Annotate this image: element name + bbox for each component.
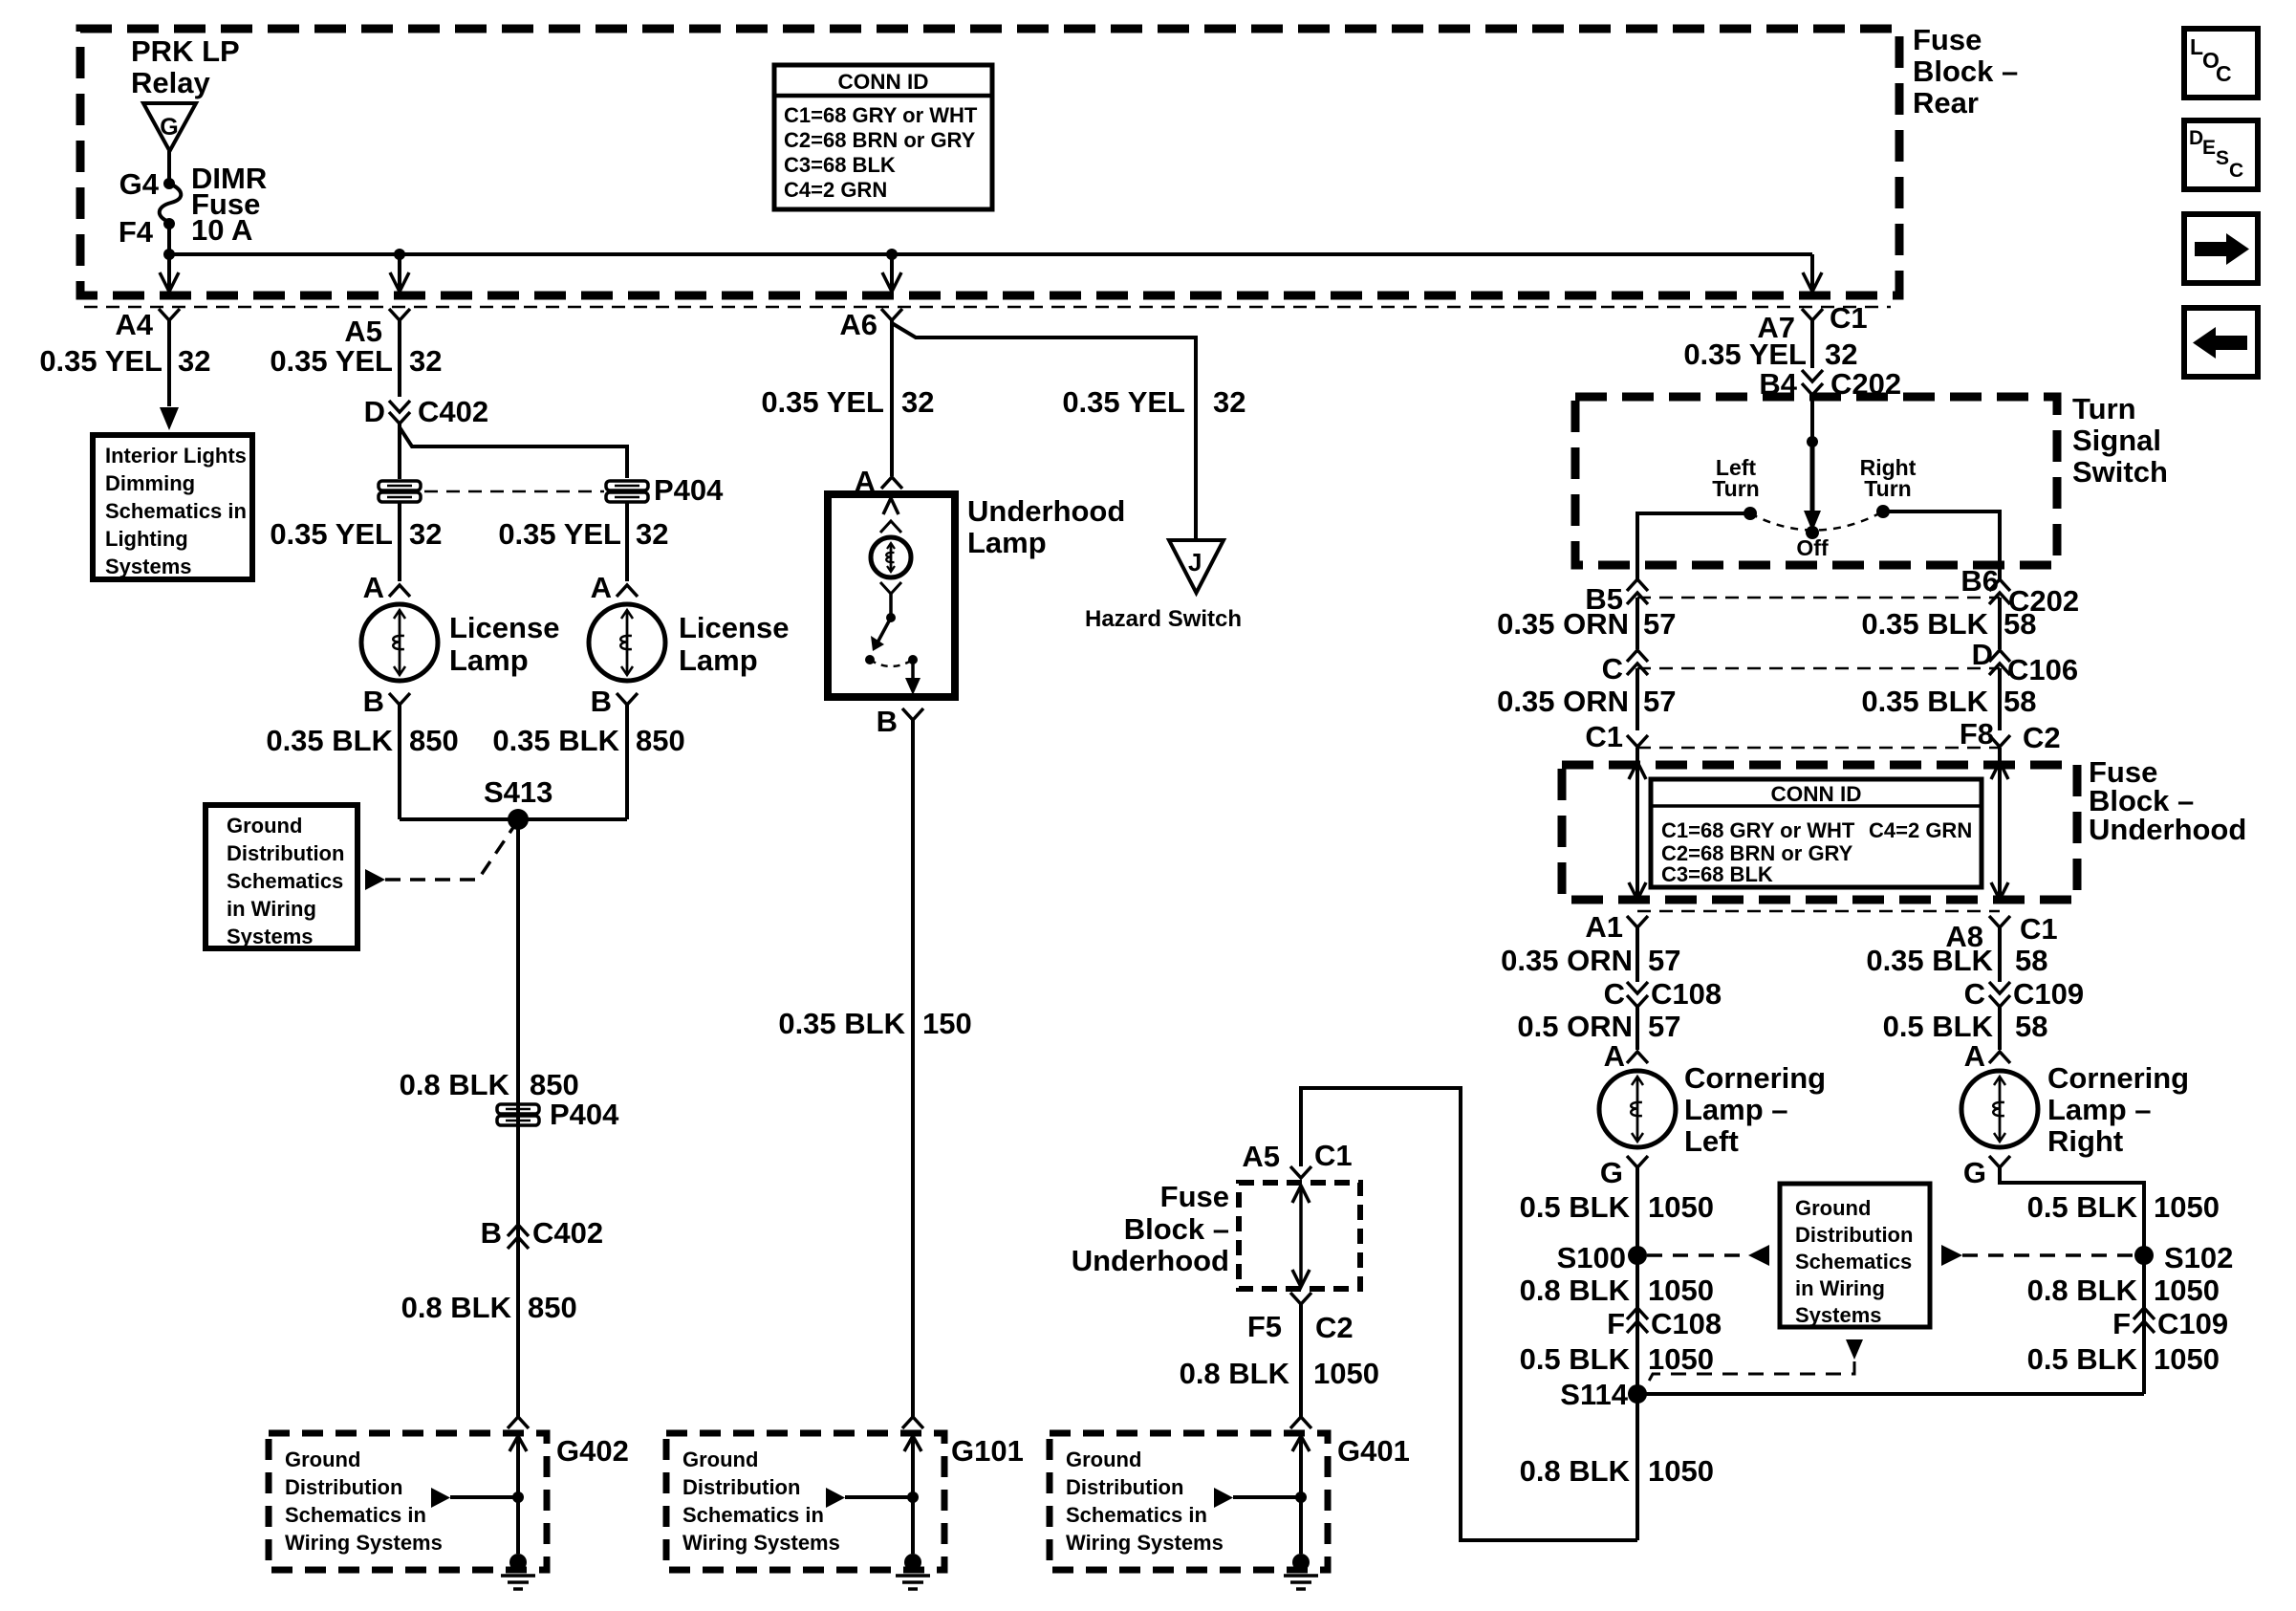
svg-text:G101: G101: [951, 1434, 1024, 1468]
svg-text:0.35 BLK: 0.35 BLK: [266, 724, 393, 757]
svg-text:PRK LP: PRK LP: [131, 34, 240, 68]
svg-text:CONN ID: CONN ID: [838, 70, 929, 94]
svg-text:1050: 1050: [2154, 1342, 2220, 1376]
svg-text:1050: 1050: [1313, 1357, 1379, 1390]
svg-text:32: 32: [409, 517, 442, 551]
svg-text:A: A: [591, 571, 612, 604]
svg-text:P404: P404: [654, 473, 724, 507]
svg-text:57: 57: [1648, 1010, 1680, 1043]
svg-text:C: C: [2216, 61, 2232, 86]
svg-text:J: J: [1188, 548, 1202, 577]
svg-text:Block –: Block –: [1913, 54, 2018, 88]
svg-text:Cornering: Cornering: [2047, 1061, 2189, 1095]
svg-text:1050: 1050: [2154, 1190, 2220, 1224]
svg-text:0.35 YEL: 0.35 YEL: [761, 385, 884, 419]
svg-text:Turn: Turn: [1864, 476, 1911, 501]
svg-text:1050: 1050: [1648, 1190, 1714, 1224]
svg-text:F: F: [1607, 1307, 1625, 1340]
svg-text:58: 58: [2004, 607, 2036, 641]
svg-text:Lamp: Lamp: [679, 643, 758, 677]
svg-text:C: C: [1602, 652, 1623, 686]
svg-text:32: 32: [178, 344, 210, 378]
svg-text:850: 850: [530, 1068, 579, 1101]
svg-text:C2: C2: [1315, 1311, 1354, 1344]
svg-text:Wiring Systems: Wiring Systems: [285, 1531, 443, 1555]
svg-text:0.35 ORN: 0.35 ORN: [1497, 685, 1629, 718]
svg-text:C3=68 BLK: C3=68 BLK: [784, 153, 896, 177]
svg-text:10 A: 10 A: [191, 213, 252, 247]
svg-text:Distribution: Distribution: [1795, 1223, 1913, 1247]
svg-text:850: 850: [636, 724, 685, 757]
svg-text:Distribution: Distribution: [682, 1475, 800, 1499]
svg-text:Right: Right: [2047, 1124, 2123, 1158]
svg-text:32: 32: [1213, 385, 1245, 419]
svg-text:0.35 ORN: 0.35 ORN: [1497, 607, 1629, 641]
svg-text:0.35 YEL: 0.35 YEL: [270, 344, 393, 378]
svg-text:Dimming: Dimming: [105, 471, 195, 495]
svg-text:Lamp –: Lamp –: [1684, 1093, 1788, 1126]
svg-text:E: E: [2202, 137, 2216, 159]
svg-text:C1: C1: [1585, 720, 1623, 753]
svg-text:Fuse: Fuse: [1913, 23, 1982, 56]
svg-text:B6: B6: [1960, 564, 1999, 598]
svg-text:Distribution: Distribution: [285, 1475, 402, 1499]
svg-text:0.35 YEL: 0.35 YEL: [1683, 337, 1807, 371]
svg-text:S114: S114: [1560, 1378, 1628, 1411]
svg-text:0.8 BLK: 0.8 BLK: [401, 1291, 512, 1324]
svg-text:L: L: [2190, 34, 2203, 59]
svg-text:B: B: [481, 1216, 502, 1250]
svg-text:A4: A4: [115, 308, 153, 341]
svg-text:B: B: [877, 705, 898, 738]
svg-text:0.8 BLK: 0.8 BLK: [1180, 1357, 1290, 1390]
svg-text:A: A: [1604, 1039, 1625, 1073]
svg-text:0.35 YEL: 0.35 YEL: [39, 344, 162, 378]
svg-text:0.35 YEL: 0.35 YEL: [498, 517, 621, 551]
svg-text:C1: C1: [1830, 301, 1868, 335]
svg-text:Lighting: Lighting: [105, 527, 188, 551]
svg-text:C: C: [1964, 977, 1985, 1011]
svg-text:S: S: [2216, 147, 2229, 169]
svg-text:Ground: Ground: [682, 1448, 758, 1471]
svg-text:CONN ID: CONN ID: [1771, 782, 1862, 806]
svg-text:0.35 BLK: 0.35 BLK: [1861, 685, 1988, 718]
svg-text:C3=68 BLK: C3=68 BLK: [1661, 862, 1773, 886]
svg-text:0.5 BLK: 0.5 BLK: [2027, 1190, 2138, 1224]
svg-text:A: A: [1964, 1039, 1985, 1073]
svg-text:0.35 ORN: 0.35 ORN: [1501, 944, 1633, 977]
svg-text:A5: A5: [344, 315, 382, 348]
svg-text:G4: G4: [119, 167, 160, 201]
svg-text:G: G: [1600, 1156, 1623, 1189]
svg-text:0.5 ORN: 0.5 ORN: [1517, 1010, 1633, 1043]
svg-text:150: 150: [922, 1007, 972, 1040]
svg-text:58: 58: [2015, 944, 2047, 977]
svg-text:0.35 YEL: 0.35 YEL: [270, 517, 393, 551]
svg-text:D: D: [364, 395, 385, 428]
svg-text:C4=2 GRN: C4=2 GRN: [784, 178, 887, 202]
svg-text:Systems: Systems: [1795, 1303, 1882, 1327]
svg-text:0.35 BLK: 0.35 BLK: [1866, 944, 1993, 977]
svg-text:1050: 1050: [1648, 1454, 1714, 1488]
svg-text:Hazard Switch: Hazard Switch: [1085, 606, 1242, 632]
svg-text:1050: 1050: [1648, 1342, 1714, 1376]
svg-text:Interior Lights: Interior Lights: [105, 444, 247, 468]
svg-text:C106: C106: [2007, 653, 2078, 686]
svg-text:850: 850: [409, 724, 459, 757]
svg-text:0.35 BLK: 0.35 BLK: [778, 1007, 905, 1040]
svg-text:0.5 BLK: 0.5 BLK: [1520, 1342, 1631, 1376]
svg-text:Schematics in: Schematics in: [285, 1503, 426, 1527]
svg-text:Underhood: Underhood: [967, 494, 1125, 528]
svg-text:Ground: Ground: [285, 1448, 360, 1471]
svg-text:C1: C1: [2020, 912, 2058, 946]
svg-text:Wiring Systems: Wiring Systems: [1066, 1531, 1224, 1555]
svg-text:F4: F4: [119, 215, 154, 249]
svg-text:0.35 YEL: 0.35 YEL: [1062, 385, 1185, 419]
svg-text:0.5 BLK: 0.5 BLK: [2027, 1342, 2138, 1376]
svg-text:Ground: Ground: [1066, 1448, 1141, 1471]
svg-text:B: B: [363, 685, 384, 718]
svg-text:S413: S413: [484, 775, 552, 809]
svg-text:Systems: Systems: [105, 555, 192, 578]
svg-text:Turn: Turn: [2072, 392, 2136, 425]
svg-text:Lamp –: Lamp –: [2047, 1093, 2152, 1126]
svg-text:C402: C402: [532, 1216, 603, 1250]
svg-text:0.5 BLK: 0.5 BLK: [1520, 1190, 1631, 1224]
svg-text:Ground: Ground: [227, 814, 302, 838]
svg-text:A6: A6: [839, 308, 877, 341]
svg-text:P404: P404: [550, 1098, 619, 1131]
svg-text:Systems: Systems: [227, 925, 314, 948]
svg-text:C: C: [2229, 160, 2243, 182]
svg-text:0.8 BLK: 0.8 BLK: [1520, 1274, 1631, 1307]
svg-text:32: 32: [901, 385, 934, 419]
svg-text:32: 32: [636, 517, 668, 551]
svg-text:C1: C1: [1314, 1139, 1353, 1172]
svg-text:B: B: [591, 685, 612, 718]
svg-text:D: D: [2189, 127, 2203, 149]
svg-text:1050: 1050: [1648, 1274, 1714, 1307]
svg-text:0.8 BLK: 0.8 BLK: [400, 1068, 510, 1101]
svg-text:Cornering: Cornering: [1684, 1061, 1826, 1095]
svg-text:License: License: [449, 611, 559, 644]
svg-text:in Wiring: in Wiring: [1795, 1276, 1885, 1300]
svg-text:F8: F8: [1960, 717, 1994, 751]
svg-text:57: 57: [1648, 944, 1680, 977]
svg-text:Relay: Relay: [131, 66, 210, 99]
svg-text:Schematics in: Schematics in: [1066, 1503, 1207, 1527]
svg-text:Off: Off: [1796, 535, 1829, 560]
svg-text:D: D: [1972, 638, 1993, 671]
svg-text:C108: C108: [1651, 1307, 1722, 1340]
svg-text:Distribution: Distribution: [1066, 1475, 1183, 1499]
svg-text:C1=68 GRY or WHT: C1=68 GRY or WHT: [784, 103, 978, 127]
svg-text:0.5 BLK: 0.5 BLK: [1883, 1010, 1994, 1043]
svg-text:in Wiring: in Wiring: [227, 897, 316, 921]
svg-text:Fuse: Fuse: [1160, 1180, 1229, 1213]
svg-text:C4=2 GRN: C4=2 GRN: [1869, 818, 1972, 842]
svg-text:Lamp: Lamp: [967, 526, 1047, 559]
svg-text:License: License: [679, 611, 789, 644]
svg-text:Wiring Systems: Wiring Systems: [682, 1531, 840, 1555]
svg-text:32: 32: [409, 344, 442, 378]
svg-text:A1: A1: [1585, 910, 1623, 944]
svg-text:Signal: Signal: [2072, 424, 2161, 457]
svg-text:0.8 BLK: 0.8 BLK: [1520, 1454, 1631, 1488]
svg-text:1050: 1050: [2154, 1274, 2220, 1307]
svg-text:Switch: Switch: [2072, 455, 2168, 489]
svg-text:C2=68 BRN or GRY: C2=68 BRN or GRY: [784, 128, 976, 152]
svg-text:0.35 BLK: 0.35 BLK: [1861, 607, 1988, 641]
svg-text:Schematics: Schematics: [227, 869, 343, 893]
svg-text:C2: C2: [2023, 721, 2061, 754]
svg-text:Schematics in: Schematics in: [682, 1503, 824, 1527]
svg-text:0.35 BLK: 0.35 BLK: [492, 724, 619, 757]
svg-text:Underhood: Underhood: [1072, 1244, 1229, 1277]
svg-text:58: 58: [2004, 685, 2036, 718]
svg-text:G402: G402: [556, 1434, 629, 1468]
svg-text:Ground: Ground: [1795, 1196, 1871, 1220]
svg-text:Block –: Block –: [1124, 1212, 1229, 1246]
svg-text:Left: Left: [1684, 1124, 1739, 1158]
svg-text:C402: C402: [418, 395, 488, 428]
svg-text:A: A: [363, 571, 384, 604]
svg-text:G: G: [1963, 1156, 1986, 1189]
svg-text:Underhood: Underhood: [2089, 813, 2246, 846]
svg-text:57: 57: [1643, 607, 1676, 641]
svg-text:Lamp: Lamp: [449, 643, 529, 677]
svg-text:Schematics in: Schematics in: [105, 499, 247, 523]
svg-text:G: G: [160, 114, 178, 141]
svg-text:0.8 BLK: 0.8 BLK: [2027, 1274, 2138, 1307]
svg-text:F5: F5: [1247, 1310, 1282, 1343]
svg-text:C109: C109: [2013, 977, 2084, 1011]
svg-text:Distribution: Distribution: [227, 841, 344, 865]
svg-text:57: 57: [1643, 685, 1676, 718]
svg-text:S100: S100: [1557, 1241, 1626, 1274]
svg-text:Turn: Turn: [1712, 476, 1759, 501]
svg-text:850: 850: [528, 1291, 577, 1324]
svg-text:Schematics: Schematics: [1795, 1250, 1912, 1274]
svg-text:C: C: [1604, 977, 1625, 1011]
svg-text:58: 58: [2015, 1010, 2047, 1043]
svg-text:F: F: [2112, 1307, 2131, 1340]
svg-text:Rear: Rear: [1913, 86, 1979, 120]
svg-text:C1=68 GRY or WHT: C1=68 GRY or WHT: [1661, 818, 1855, 842]
svg-text:32: 32: [1825, 337, 1857, 371]
svg-text:A5: A5: [1242, 1140, 1280, 1173]
svg-text:G401: G401: [1337, 1434, 1410, 1468]
svg-text:C109: C109: [2157, 1307, 2228, 1340]
svg-text:S102: S102: [2164, 1241, 2233, 1274]
svg-text:C108: C108: [1651, 977, 1722, 1011]
